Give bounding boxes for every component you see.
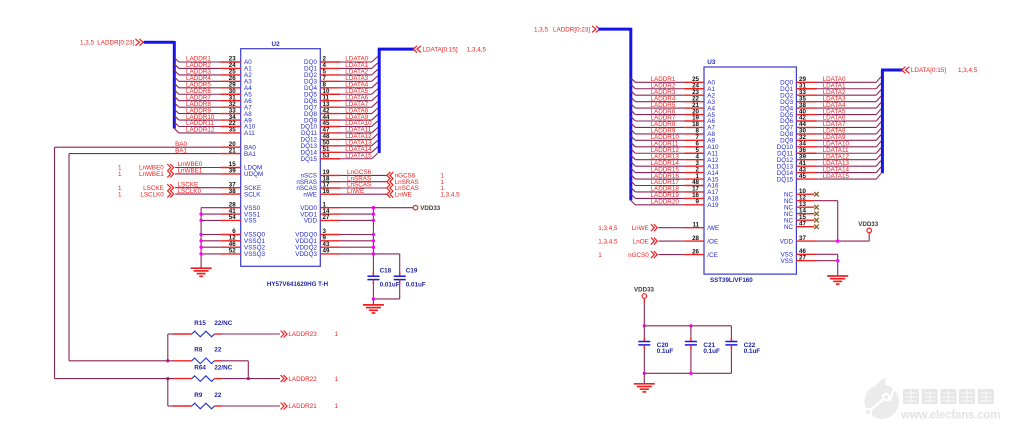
wire BA0 row into R64 (55, 378, 174, 380)
junction VSS rail at VSSQ1 (199, 239, 202, 242)
wire U2 pin 46 (VSSQ2) to ground rail (201, 241, 265, 252)
wire LADDR19 / U3 pin 16 (A18) (631, 192, 719, 203)
svg-text:LnWBE1: LnWBE1 (178, 168, 203, 175)
junction top rail C21 (689, 324, 692, 327)
svg-text:VDD33: VDD33 (858, 221, 879, 228)
wire LADDR2 / U3 pin 24 (A1) (631, 82, 716, 93)
wire LDATA10 / U3 pin 34 (DQ10) (777, 141, 881, 152)
wire U2 pin 43 (VDDQ2) to VDD rail (295, 241, 373, 252)
svg-text:R8: R8 (194, 347, 203, 354)
svg-text:LSCLK0: LSCLK0 (178, 188, 202, 195)
svg-text:26: 26 (692, 248, 699, 255)
svg-text:LSCLK0: LSCLK0 (140, 191, 164, 198)
U3 pin 12 (NC) tied to VDD rail (784, 194, 838, 241)
port LnWBE0 / wire to U2 pin 15 (LDQM) (118, 161, 262, 172)
svg-text:22: 22 (214, 347, 222, 354)
wire U2 pin 52 (VSSQ3) to ground rail (201, 248, 265, 259)
wire LDATA4 / U3 pin 38 (DQ4) (780, 102, 881, 113)
wire LDATA13 / U3 pin 41 (DQ13) (777, 160, 881, 171)
port nGCS0 / wire to U3 pin 26 (/CE) (598, 248, 718, 258)
svg-text:VSS: VSS (244, 218, 257, 225)
U3 pin 13 (NC) no-connect X (784, 201, 819, 212)
svg-text:LADDR[0:23]: LADDR[0:23] (97, 40, 134, 47)
ground below U3 VSS (827, 276, 848, 284)
svg-text:LnWE: LnWE (395, 191, 412, 198)
junction BA1 / R8-R15 left (166, 359, 169, 362)
svg-text:0.01uF: 0.01uF (406, 282, 426, 289)
wire LDATA3 / U3 pin 35 (DQ3) (780, 95, 881, 106)
svg-text:1,3,4,5: 1,3,4,5 (598, 238, 618, 245)
svg-text:1,3,4,5: 1,3,4,5 (467, 46, 487, 53)
svg-text:LADDR23: LADDR23 (288, 331, 317, 338)
wire LADDR8 / U3 pin 18 (A7) (631, 121, 716, 131)
svg-text:R64: R64 (194, 364, 206, 371)
wire LADDR17 / U3 pin 48 (A16) (631, 179, 719, 190)
wire LDATA1 / U2 pin 4 (DQ1) (304, 62, 378, 73)
port LADDR[0:23] (sheet 1,3,5) left of U2 (80, 39, 143, 47)
capacitor C20 0.1uF (638, 326, 673, 374)
port LADDR[0:23] (sheet 1,3,5) left of U3 (534, 26, 600, 34)
wire cap bank top rail (644, 325, 731, 327)
svg-text:9: 9 (696, 199, 700, 206)
junction VSS rail at VSSQ3 (199, 252, 202, 255)
svg-text:nGCS0: nGCS0 (628, 252, 649, 259)
junction BA0 / R64-R9 left (166, 377, 169, 380)
svg-text:28: 28 (692, 235, 699, 242)
capacitor C21 0.1uF (685, 326, 720, 374)
svg-text:LADDR[0:23]: LADDR[0:23] (553, 26, 590, 33)
wire LADDR7 / U3 pin 19 (A6) (631, 115, 716, 126)
svg-text:LnWE: LnWE (632, 225, 649, 232)
svg-text:LDATA[0:15]: LDATA[0:15] (911, 67, 946, 74)
wire LDATA9 / U2 pin 44 (DQ9) (304, 114, 378, 125)
svg-text:VDD33: VDD33 (634, 286, 655, 293)
svg-text:0.1uF: 0.1uF (744, 348, 761, 355)
refdes U3 (707, 59, 716, 66)
svg-text:1,3,4,5: 1,3,4,5 (598, 225, 618, 232)
svg-text:1,3,4,5: 1,3,4,5 (958, 67, 978, 74)
wire LDATA9 / U3 pin 32 (DQ9) (780, 134, 881, 145)
junction VSS rail at VSSQ2 (199, 246, 202, 249)
wire LDATA1 / U3 pin 31 (DQ1) (780, 82, 881, 93)
junction bottom rail C21 (689, 372, 692, 375)
svg-text:1: 1 (335, 331, 339, 338)
svg-text:54: 54 (229, 214, 236, 221)
wire LADDR20 / U3 pin 9 (A19) (631, 199, 719, 210)
IC U3 box (704, 67, 796, 274)
wire LDATA4 / U2 pin 8 (DQ4) (304, 82, 378, 93)
port LSCKE / wire to U2 pin 37 (SCKE) (118, 181, 261, 192)
svg-text:0.1uF: 0.1uF (703, 348, 720, 355)
svg-text:DQ15: DQ15 (777, 176, 794, 183)
svg-text:/WE: /WE (707, 225, 719, 232)
svg-text:21: 21 (229, 147, 236, 154)
svg-text:LADDR21: LADDR21 (288, 403, 317, 410)
wire LADDR13 / U3 pin 4 (A12) (631, 153, 719, 164)
wire U2 pin 28 (VSS0) to ground rail (201, 201, 260, 212)
junction VDD rail at VDD (372, 219, 375, 222)
junction top rail C20 (643, 324, 646, 327)
bus LDATA right of U2 (378, 49, 415, 153)
port LDATA[0:15] (sheet 1,3,4,5) right of U2 (413, 46, 486, 54)
wire U2 pin 3 (VDDQ0) to VDD rail (295, 228, 373, 239)
wire LDATA15 / U3 pin 45 (DQ15) (777, 173, 881, 184)
wire VDD0 row to VDD33 terminal (373, 207, 413, 209)
svg-text:BA1: BA1 (244, 151, 256, 158)
power terminal VDD33 (U2) (413, 205, 441, 212)
wire LADDR3 / U2 pin 25 (A2) (174, 69, 252, 80)
svg-text:39: 39 (229, 168, 236, 175)
ground below C18 (363, 305, 384, 313)
port LADDR22 (281, 375, 339, 383)
wire VDD33 stem to cap rail (643, 298, 645, 326)
wire LADDR11 / U2 pin 22 (A10) (174, 120, 255, 131)
svg-text:27: 27 (323, 214, 330, 221)
svg-text:LDATA15: LDATA15 (345, 152, 372, 159)
svg-text:1,3,5: 1,3,5 (534, 26, 549, 33)
wire C18/C19 bottom rail (373, 298, 399, 300)
wire LDATA14 / U3 pin 43 (DQ14) (777, 166, 881, 177)
wire LADDR4 / U3 pin 22 (A3) (631, 95, 716, 106)
port LnWE / wire from U2 pin 16 (nWE) (303, 188, 460, 199)
wire LADDR5 / U2 pin 29 (A4) (174, 82, 252, 93)
port LnSRAS / wire from U2 pin 18 (nSRAS) (296, 175, 444, 186)
wire U2 pin 49 (VDDQ3) to VDD rail (295, 248, 373, 259)
wire LDATA13 / U2 pin 50 (DQ13) (301, 140, 378, 151)
wire LDATA2 / U2 pin 5 (DQ2) (304, 69, 378, 80)
svg-text:DQ15: DQ15 (301, 156, 318, 163)
wire U2 pin 27 (VDD) to VDD rail (304, 214, 374, 225)
svg-text:VDD: VDD (304, 218, 318, 225)
wire LADDR7 / U2 pin 31 (A6) (174, 94, 252, 105)
wire U2 pin 1 (VDD0) to VDD rail (300, 201, 373, 212)
wire cap bank bottom rail (644, 372, 731, 374)
svg-text:R15: R15 (194, 320, 206, 327)
svg-text:1: 1 (118, 171, 122, 178)
svg-text:BA1: BA1 (175, 147, 187, 154)
svg-text:NC: NC (784, 224, 794, 231)
svg-text:VDD: VDD (780, 238, 794, 245)
wire U2 pin 41 (VSS1) to ground rail (201, 208, 260, 219)
ground below U2 VSS rail (191, 268, 212, 276)
junction VDD rail at VDD1 (372, 212, 375, 215)
svg-text:0.01uF: 0.01uF (380, 282, 400, 289)
wire U2 pin 12 (VSSQ1) to ground rail (201, 235, 265, 246)
wire stem to ground (372, 299, 374, 305)
junction NC12/VDD rail (836, 239, 839, 242)
wire VDDQ3 row extension to C19 (373, 254, 399, 276)
svg-text:1: 1 (118, 191, 122, 198)
wire R8 right to R64 right (222, 361, 248, 379)
wire LADDR9 / U2 pin 33 (A8) (174, 107, 252, 118)
svg-text:LADDR12: LADDR12 (186, 127, 215, 134)
wire LADDR15 / U3 pin 2 (A14) (631, 166, 719, 177)
wire U2 pin 6 (VSSQ0) to ground rail (201, 228, 265, 239)
svg-text:VSS: VSS (780, 258, 793, 265)
wire LDATA12 / U2 pin 48 (DQ12) (301, 133, 378, 144)
port LADDR21 (281, 403, 339, 411)
wire LADDR12 / U3 pin 5 (A11) (631, 147, 719, 158)
svg-text:16: 16 (323, 188, 330, 195)
svg-text:22/NC: 22/NC (214, 320, 232, 327)
junction VDD rail at VDDQ0 (372, 233, 375, 236)
port LnWBE1 / wire to U2 pin 39 (UDQM) (118, 168, 263, 179)
svg-text:U2: U2 (272, 41, 281, 48)
wire LADDR1 / U3 pin 25 (A0) (631, 76, 716, 87)
svg-text:LADDR20: LADDR20 (651, 199, 680, 206)
resistor R9 22 (173, 392, 222, 409)
resistor R8 22 (173, 347, 222, 364)
junction VSS rail at VSSQ0 (199, 233, 202, 236)
svg-text:LADDR22: LADDR22 (288, 376, 317, 383)
wire LDATA5 / U3 pin 40 (DQ5) (780, 108, 881, 119)
power terminal VDD33 (U3) (858, 221, 879, 233)
wire LDATA10 / U2 pin 45 (DQ10) (301, 120, 378, 131)
svg-text:38: 38 (229, 188, 236, 195)
svg-text:1,3,4,5: 1,3,4,5 (440, 191, 460, 198)
wire LADDR12 / U2 pin 35 (A11) (174, 127, 255, 138)
svg-text:LnWBE1: LnWBE1 (139, 171, 164, 178)
wire LADDR10 / U3 pin 7 (A9) (631, 134, 716, 145)
svg-text:52: 52 (229, 248, 236, 255)
wire LDATA8 / U3 pin 30 (DQ8) (780, 128, 881, 139)
wire LDATA15 / U2 pin 53 (DQ15) (301, 152, 378, 163)
svg-text:C19: C19 (406, 268, 418, 275)
wire LDATA7 / U3 pin 44 (DQ7) (780, 121, 881, 131)
svg-text:45: 45 (799, 173, 806, 180)
svg-text:A11: A11 (244, 130, 255, 137)
wire LADDR3 / U3 pin 23 (A2) (631, 89, 716, 100)
junction VDD rail at VDDQ3 (372, 252, 375, 255)
svg-text:VDD33: VDD33 (420, 205, 441, 212)
svg-text:1: 1 (335, 376, 339, 383)
U3 pin 47 (NC) no-connect X (784, 220, 819, 231)
wire R64 to port LADDR22 (222, 378, 280, 380)
ground below cap bank (634, 384, 655, 392)
wire LDATA14 / U2 pin 51 (DQ14) (301, 146, 378, 157)
wire LADDR11 / U3 pin 6 (A10) (631, 141, 719, 152)
junction VSS rows (836, 259, 839, 262)
capacitor C22 0.1uF (725, 326, 760, 374)
wire U3 pin 37 (VDD) to VDD33 (780, 233, 869, 246)
IC U2 box (241, 49, 321, 267)
wire VSS vertical rail (200, 208, 202, 269)
junction VSS rail at VSS (199, 219, 202, 222)
wire LDATA11 / U3 pin 36 (DQ11) (777, 147, 881, 158)
wire BA1 row into R8 (69, 360, 173, 362)
wire LADDR10 / U2 pin 34 (A9) (174, 114, 252, 125)
port LSCLK0 / wire to U2 pin 38 (SCLK) (118, 188, 261, 199)
wire R15 left branch (168, 334, 173, 361)
capacitor C18 (367, 268, 399, 299)
svg-text:www.elecfans.com: www.elecfans.com (900, 410, 1000, 422)
port LnSCAS / wire from U2 pin 17 (nSCAS) (296, 182, 444, 193)
svg-text:SST39L/VF160: SST39L/VF160 (710, 277, 753, 284)
port LADDR23 (281, 331, 339, 339)
wire LDATA8 / U2 pin 42 (DQ8) (304, 107, 378, 118)
port LnOE / wire to U3 pin 28 (/OE) (598, 235, 718, 246)
svg-text:nWE: nWE (303, 191, 317, 198)
svg-text:LnOE: LnOE (633, 238, 649, 245)
wire LDATA0 / U3 pin 29 (DQ0) (780, 76, 881, 87)
wire BA1 vertical down to R8 row (68, 154, 70, 361)
bus LADDR to U2 (144, 41, 175, 129)
svg-text:11: 11 (692, 221, 699, 228)
wire LDATA6 / U2 pin 11 (DQ6) (304, 94, 378, 105)
wire BA1 / U2 pin 21 (69, 147, 256, 158)
wire LADDR4 / U2 pin 26 (A3) (174, 75, 252, 86)
svg-text:1: 1 (335, 403, 339, 410)
wire LDATA2 / U3 pin 33 (DQ2) (780, 89, 881, 100)
wire LDATA6 / U3 pin 42 (DQ6) (780, 115, 881, 126)
port LnWE / wire to U3 pin 11 (/WE) (598, 221, 719, 232)
wire LADDR6 / U3 pin 20 (A5) (631, 108, 716, 119)
wire LADDR6 / U2 pin 30 (A5) (174, 88, 252, 99)
svg-text:VDDQ3: VDDQ3 (295, 251, 317, 258)
svg-text:HY57V641620HG T-H: HY57V641620HG T-H (267, 281, 329, 288)
resistor R15 22/NC (173, 320, 233, 337)
svg-text:27: 27 (799, 254, 806, 261)
junction VDD rail at VDDQ1 (372, 239, 375, 242)
wire U2 pin 14 (VDD1) to VDD rail (300, 208, 373, 219)
wire LDATA3 / U2 pin 7 (DQ3) (304, 75, 378, 86)
svg-text:SCLK: SCLK (244, 191, 261, 198)
wire LADDR16 / U3 pin 1 (A15) (631, 173, 719, 184)
capacitor C19 (394, 268, 426, 299)
bus LADDR to U3 (598, 28, 631, 201)
wire VDD vertical rail right of U2 (372, 208, 374, 276)
junction C18 bottom (372, 297, 375, 300)
part value SST39L/VF160 (710, 277, 753, 284)
wire stem to ground (cap bank) (643, 373, 645, 384)
port nGCS6 / wire from U2 pin 19 (nSCS) (301, 169, 445, 180)
svg-text:U3: U3 (707, 59, 716, 66)
svg-text:47: 47 (799, 220, 806, 227)
wire U3 pin 46 (VSS) (780, 248, 837, 261)
svg-text:C18: C18 (380, 268, 392, 275)
svg-text:R9: R9 (194, 392, 203, 399)
svg-text:/CE: /CE (707, 252, 718, 259)
wire U2 pin 54 (VSS) to ground rail (201, 214, 257, 225)
svg-text:A19: A19 (707, 202, 719, 209)
svg-text:LnWE: LnWE (347, 188, 364, 195)
U3 pin 14 (NC) no-connect X (784, 207, 819, 218)
svg-text:VSSQ3: VSSQ3 (244, 251, 265, 258)
wire LADDR2 / U2 pin 24 (A1) (174, 62, 252, 73)
wire LDATA7 / U2 pin 13 (DQ7) (304, 101, 378, 112)
svg-text:37: 37 (799, 235, 806, 242)
part value HY57V641620HG T-H (267, 281, 329, 288)
svg-text:49: 49 (323, 248, 330, 255)
svg-text:35: 35 (229, 127, 236, 134)
wire LDATA5 / U2 pin 10 (DQ5) (304, 88, 378, 99)
power terminal VDD33 (decoupling bank) (634, 286, 655, 298)
wire LDATA0 / U2 pin 2 (DQ0) (304, 56, 378, 66)
wire LADDR14 / U3 pin 3 (A13) (631, 160, 719, 171)
junction bottom rail C20 (643, 372, 646, 375)
wire BA0 vertical down to R64 row (54, 147, 56, 378)
wire LADDR5 / U3 pin 21 (A4) (631, 102, 716, 113)
resistor R64 22/NC (173, 364, 233, 381)
svg-text:LDATA[0:15]: LDATA[0:15] (423, 46, 458, 53)
wire R15 to port LADDR23 (222, 333, 280, 335)
junction R64/R8 right (247, 377, 250, 380)
svg-text:53: 53 (323, 152, 330, 159)
wire LADDR8 / U2 pin 32 (A7) (174, 101, 252, 112)
wire R9 left branch (168, 379, 173, 406)
svg-text:0.1uF: 0.1uF (657, 348, 674, 355)
wire LADDR18 / U3 pin 17 (A17) (631, 186, 719, 197)
wire U3 pin 27 (VSS) to ground (780, 254, 837, 276)
svg-text:22/NC: 22/NC (214, 364, 232, 371)
refdes U2 (272, 41, 281, 48)
junction VSS rail at VSS1 (199, 212, 202, 215)
wire LADDR1 / U2 pin 23 (A0) (174, 56, 252, 66)
svg-text:UDQM: UDQM (244, 171, 263, 178)
wire LDATA11 / U2 pin 47 (DQ11) (301, 127, 378, 138)
wire U2 pin 9 (VDDQ1) to VDD rail (295, 235, 373, 246)
bus LDATA right of U3 (881, 70, 903, 173)
svg-text:LDATA15: LDATA15 (823, 173, 850, 180)
U3 pin 15 (NC) no-connect X (784, 214, 819, 225)
U3 pin 10 (NC) no-connect X (784, 188, 819, 199)
wire LDATA12 / U3 pin 39 (DQ12) (777, 153, 881, 164)
port LDATA[0:15] (sheet 1,3,4,5) right of U3 (902, 67, 978, 75)
svg-text:1,3,5: 1,3,5 (80, 40, 95, 47)
wire LADDR9 / U3 pin 8 (A8) (631, 128, 716, 139)
svg-text:/OE: /OE (707, 238, 718, 245)
wire BA0 / U2 pin 20 (55, 141, 257, 152)
svg-text:1: 1 (598, 252, 602, 259)
wire R9 to port LADDR21 (222, 405, 280, 407)
junction VDD rail at VDD0 (372, 206, 375, 209)
junction VDD rail at VDDQ2 (372, 246, 375, 249)
svg-text:22: 22 (214, 392, 222, 399)
